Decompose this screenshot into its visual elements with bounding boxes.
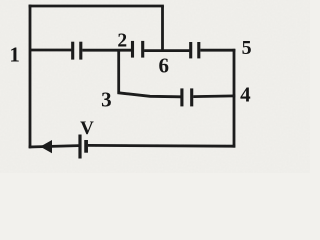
- wire: C3 to node 5 corner: [200, 49, 235, 52]
- paper background: [0, 0, 310, 173]
- svg-text:6: 6: [159, 54, 170, 78]
- battery V negative plate (short): [84, 140, 88, 153]
- wire: C1 to capacitor C2: [82, 49, 131, 52]
- battery V positive plate (long): [78, 135, 81, 159]
- wire: battery to bottom right corner: [88, 144, 235, 148]
- svg-text:3: 3: [101, 88, 112, 112]
- svg-text:2: 2: [117, 30, 127, 51]
- wire: right vertical (node 5 through node 4 to bottom): [233, 49, 236, 148]
- svg-text:V: V: [80, 118, 94, 139]
- capacitor C1 (between nodes 1 and 2): [73, 42, 81, 60]
- wire: drop from top to junction 6: [161, 6, 164, 52]
- svg-text:1: 1: [9, 43, 20, 67]
- wire: node 2 drop to node 3: [117, 50, 120, 93]
- wire: top horizontal: [29, 5, 164, 8]
- capacitor C4 (between nodes 3 and 4): [182, 88, 192, 106]
- wire: node 3 to capacitor C4: [117, 93, 180, 97]
- svg-text:5: 5: [242, 37, 252, 59]
- wire: C4 to node 4: [193, 95, 235, 98]
- wire: left vertical: [29, 5, 32, 149]
- wire: bottom left segment to battery: [29, 146, 79, 147]
- capacitor C3 (between junction 6 and node 5): [191, 42, 199, 58]
- wire: node 1 to capacitor C1: [30, 49, 71, 52]
- svg-text:4: 4: [240, 82, 251, 106]
- current direction arrowhead on bottom wire: [40, 140, 52, 153]
- capacitor C2 (between node 2 and junction 6): [133, 41, 143, 58]
- wire: C2 through junction 6 to capacitor C3: [144, 49, 189, 52]
